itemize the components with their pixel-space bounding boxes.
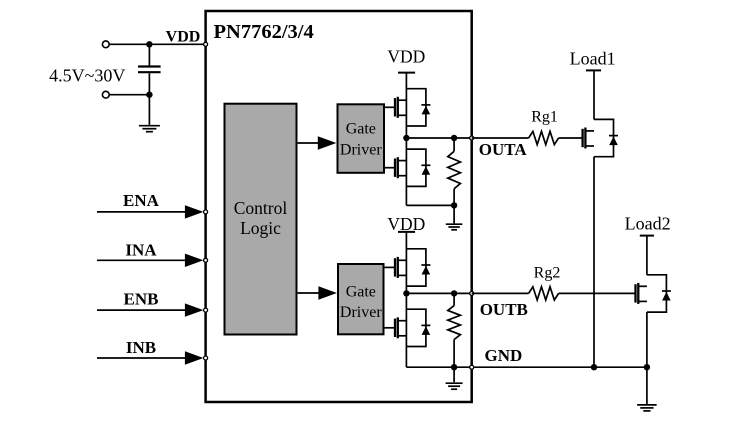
svg-text:INA: INA bbox=[125, 240, 157, 259]
svg-text:PN7762/3/4: PN7762/3/4 bbox=[214, 21, 314, 43]
svg-text:INB: INB bbox=[126, 338, 156, 357]
svg-text:VDD: VDD bbox=[166, 28, 201, 45]
svg-text:ENB: ENB bbox=[124, 290, 159, 309]
svg-text:OUTB: OUTB bbox=[480, 300, 528, 319]
svg-text:GND: GND bbox=[485, 346, 523, 365]
svg-text:4.5V~30V: 4.5V~30V bbox=[49, 66, 125, 86]
svg-text:Load1: Load1 bbox=[570, 48, 616, 68]
svg-text:ENA: ENA bbox=[123, 191, 160, 210]
svg-text:Driver: Driver bbox=[340, 304, 382, 321]
svg-text:Gate: Gate bbox=[346, 284, 376, 301]
svg-text:Gate: Gate bbox=[346, 121, 376, 138]
svg-text:Rg2: Rg2 bbox=[534, 265, 561, 282]
svg-text:Logic: Logic bbox=[240, 218, 281, 238]
svg-text:VDD: VDD bbox=[387, 47, 425, 67]
svg-text:Control: Control bbox=[234, 198, 288, 218]
svg-text:Driver: Driver bbox=[340, 142, 382, 159]
svg-text:Rg1: Rg1 bbox=[531, 109, 558, 126]
svg-text:Load2: Load2 bbox=[625, 214, 671, 234]
svg-text:OUTA: OUTA bbox=[479, 140, 528, 159]
